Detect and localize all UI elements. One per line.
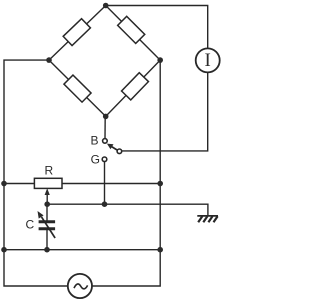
- variable capacitor C top lead: [46, 204, 48, 222]
- wire: bridge arm lower-left: [49, 60, 106, 116]
- variable capacitor C bottom plate: [39, 227, 56, 230]
- node dot bridge right: [157, 57, 163, 63]
- wire: contact G down to ground line: [104, 162, 106, 205]
- variable capacitor C bottom lead: [46, 229, 48, 250]
- ground symbol: [197, 215, 218, 217]
- wire: left rail from left node down and along bottom to source: [4, 60, 68, 286]
- AC source sine symbol: [74, 284, 88, 289]
- svg-text:B: B: [90, 134, 98, 148]
- variable capacitor C arrow: [42, 217, 56, 238]
- AC source circle: [68, 274, 92, 298]
- node dot capacitor bottom: [44, 247, 50, 253]
- resistor bridge upper-left: [63, 19, 90, 46]
- svg-text:G: G: [91, 153, 100, 167]
- node dot R line left: [1, 181, 7, 187]
- switch contact G: [102, 157, 107, 162]
- node dot bridge bottom: [103, 114, 109, 120]
- switch pivot: [117, 149, 122, 154]
- svg-text:C: C: [25, 218, 34, 232]
- switch arm with arrow toward B: [111, 146, 118, 150]
- node dot G junction: [102, 201, 108, 207]
- wire top: bridge top node to meter top: [106, 6, 208, 49]
- switch contact B: [103, 139, 108, 144]
- svg-text:R: R: [44, 164, 53, 178]
- wire: source right to right rail up to bridge right node: [92, 60, 160, 286]
- node dot bridge top: [103, 3, 109, 9]
- resistor bridge upper-right: [118, 16, 145, 43]
- wire: bridge arm lower-right: [106, 60, 161, 116]
- wire: ground line horizontal, down to earth: [47, 204, 208, 216]
- node dot bottom line left: [1, 247, 7, 253]
- node dot bottom line right: [157, 247, 163, 253]
- node dot R line right: [157, 181, 163, 187]
- wire: bridge arm upper-left: [49, 6, 106, 61]
- node dot bridge left: [46, 57, 52, 63]
- potentiometer R body: [34, 178, 62, 188]
- wire: R line horizontal: [4, 183, 160, 185]
- meter I (ammeter circle): [196, 48, 220, 72]
- wire: bridge bottom node down to contact B: [104, 116, 106, 138]
- wire: meter bottom down and left to switch pivot: [122, 72, 208, 150]
- svg-text:I: I: [205, 50, 211, 71]
- node dot wiper junction: [44, 201, 50, 207]
- variable capacitor C top plate: [39, 220, 56, 223]
- resistor bridge lower-left: [64, 75, 91, 102]
- resistor bridge lower-right: [122, 73, 149, 100]
- wire: bottom line horizontal: [4, 249, 160, 251]
- potentiometer R wiper arrow: [46, 193, 48, 205]
- wire: bridge arm upper-right: [106, 6, 161, 61]
